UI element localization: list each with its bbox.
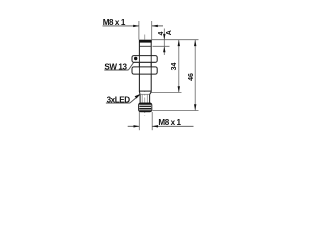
svg-text:M8 x 1: M8 x 1 — [158, 118, 181, 127]
svg-text:A: A — [166, 30, 173, 35]
svg-text:4: 4 — [158, 32, 165, 36]
svg-text:SW 13: SW 13 — [104, 62, 127, 71]
svg-text:34: 34 — [171, 63, 178, 71]
svg-text:46: 46 — [188, 73, 195, 81]
svg-text:3xLED: 3xLED — [107, 95, 131, 104]
svg-text:M8 x 1: M8 x 1 — [103, 18, 126, 27]
